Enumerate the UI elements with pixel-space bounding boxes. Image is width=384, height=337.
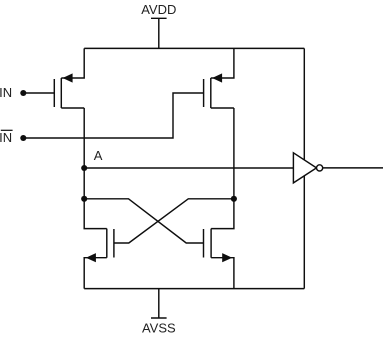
wire Q2 drain to node B xyxy=(233,108,235,199)
node INB terminal xyxy=(20,135,26,141)
transistor Q1 PMOS left (gate IN) xyxy=(54,73,84,108)
wire AVSS rail xyxy=(84,288,304,290)
wire cross-couple left node to Q4 gate xyxy=(84,199,203,243)
inverter output bubble xyxy=(317,165,323,171)
wire inverter supply to AVSS rail xyxy=(303,176,305,289)
op-amp U1 inverter triangle xyxy=(293,153,316,183)
wire INB overline xyxy=(1,129,13,131)
node right (Q4 drain) junction xyxy=(231,196,237,202)
power symbol AVDD xyxy=(151,18,167,48)
wire node A down to left node xyxy=(83,168,85,199)
wire cross-couple right node to Q3 gate xyxy=(114,199,234,243)
transistor Q4 NMOS right (cross-coupled) xyxy=(204,199,234,289)
wire inverter output xyxy=(323,167,383,169)
wire inverter supply from AVDD rail xyxy=(303,48,305,160)
transistor Q2 PMOS right (gate INB) xyxy=(204,73,234,108)
wire Q1 drain to node A xyxy=(83,108,85,168)
power symbol AVSS xyxy=(151,289,167,318)
svg-text:A: A xyxy=(94,148,103,163)
node left (Q3 drain) junction xyxy=(81,196,87,202)
transistor Q3 NMOS left (cross-coupled) xyxy=(84,199,114,289)
wire node A to inverter input xyxy=(84,167,293,169)
wire AVDD rail xyxy=(84,47,304,49)
wire IN to Q1 gate xyxy=(23,92,54,94)
node IN terminal xyxy=(20,90,26,96)
wire INB to Q2 gate xyxy=(23,93,203,138)
wire left PMOS source to rail xyxy=(61,48,84,78)
node A junction xyxy=(81,165,87,171)
wire Q2 source to rail xyxy=(211,48,234,78)
svg-text:AVSS: AVSS xyxy=(142,321,176,336)
svg-text:IN: IN xyxy=(0,85,12,100)
svg-text:IN: IN xyxy=(0,130,12,145)
svg-text:AVDD: AVDD xyxy=(141,2,176,17)
